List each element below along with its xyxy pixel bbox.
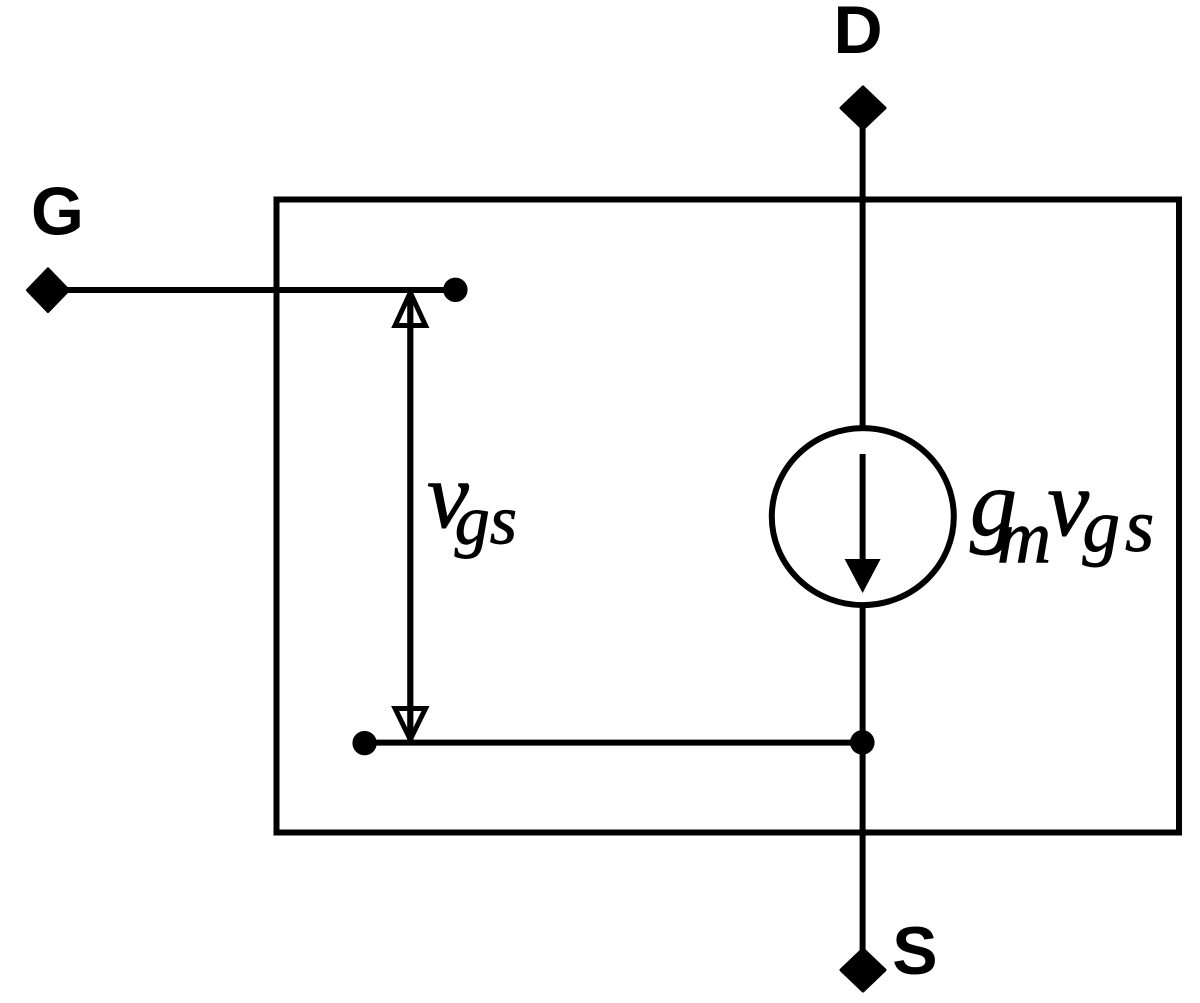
svg-text:G: G xyxy=(31,174,84,250)
vgs measurement arrow shaft xyxy=(407,291,413,741)
source node dot internal xyxy=(352,731,376,755)
device body box xyxy=(277,200,1180,833)
wire current source to S xyxy=(860,603,866,952)
gate node dot xyxy=(443,278,467,302)
svg-text:D: D xyxy=(833,0,882,68)
wire D to current source xyxy=(860,112,866,430)
junction node S-internal xyxy=(850,730,875,755)
terminal D xyxy=(841,87,885,129)
current source arrow xyxy=(845,454,881,593)
wire G to gate node xyxy=(48,287,455,293)
wire internal source rail xyxy=(365,740,863,746)
vgs arrowhead top xyxy=(395,293,425,326)
terminal G xyxy=(28,269,69,312)
terminal S xyxy=(841,949,885,991)
svg-text:S: S xyxy=(892,913,937,989)
current source U1 circle xyxy=(772,428,954,605)
vgs arrowhead bottom xyxy=(395,709,425,740)
